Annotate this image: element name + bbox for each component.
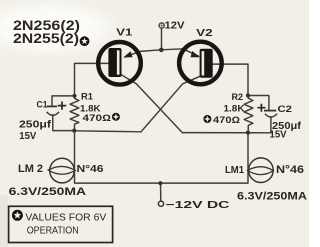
svg-text:N°46: N°46: [276, 164, 304, 176]
svg-text:V1: V1: [116, 26, 132, 38]
svg-text:15V: 15V: [270, 130, 287, 141]
svg-text:470Ω: 470Ω: [83, 113, 112, 123]
svg-text:2N255(2): 2N255(2): [13, 30, 79, 46]
svg-text:OPERATION: OPERATION: [27, 226, 79, 237]
svg-text:N°46: N°46: [77, 163, 104, 175]
svg-text:250μf: 250μf: [19, 120, 52, 131]
svg-text:VALUES FOR 6V: VALUES FOR 6V: [25, 213, 106, 224]
svg-text:6.3V/250MA: 6.3V/250MA: [237, 190, 307, 202]
svg-text:15V: 15V: [19, 131, 36, 142]
svg-text:LM1: LM1: [225, 164, 244, 176]
svg-text:12V: 12V: [165, 21, 185, 32]
svg-text:−12V DC: −12V DC: [166, 200, 230, 211]
svg-text:R1: R1: [81, 91, 93, 101]
svg-text:470Ω: 470Ω: [213, 115, 240, 125]
svg-text:C2: C2: [278, 104, 293, 114]
svg-text:LM 2: LM 2: [18, 163, 43, 175]
svg-text:6.3V/250MA: 6.3V/250MA: [9, 186, 87, 198]
svg-text:V2: V2: [196, 27, 213, 39]
svg-text:R2: R2: [232, 92, 244, 102]
svg-text:C1: C1: [37, 99, 48, 109]
svg-text:1.8K: 1.8K: [224, 103, 246, 113]
svg-text:1.8K: 1.8K: [80, 103, 101, 113]
